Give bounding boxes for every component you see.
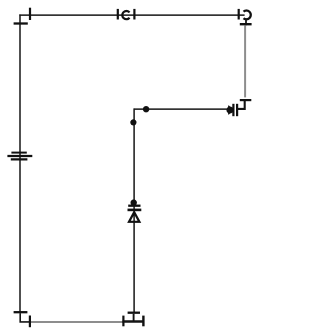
wire bottom junction horizontal [122,320,144,322]
D1 anode triangle (filled, pointing right) [229,106,234,114]
C2 straight plate [238,9,240,20]
wire terminal tick on bottom wire near bottom-left corner [29,316,31,328]
capacitor C1 (top middle, polarized: curved plate + straight plate) [118,9,135,20]
wire terminal tall bar right of bottom junction [142,316,144,327]
diode D1 (right, filled triangle + cathode bar) [226,104,237,116]
D1 cathode bar [232,104,234,116]
C1 curved plate arc (opening right) [122,11,129,19]
D2 cathode bar [128,209,142,212]
wire terminal tall bar left of bottom junction [122,316,124,327]
C2 bottom lead stub [245,19,247,26]
wire middle vertical [133,108,135,312]
capacitor C2 (top right corner, polarized: straight plate + curved plate) [239,9,251,26]
wire terminal bar above right corner [240,99,252,101]
junction dot C [131,199,137,205]
junction dot A [143,106,149,112]
wire bottom-left corner stub [20,313,31,322]
wire right mid corner [238,101,245,109]
wire terminal bar below top-left corner [14,22,28,24]
C1 straight plate [133,9,135,20]
wire top edge [19,14,244,16]
D1 terminal bar [236,104,238,116]
C2 curved plate arc (opening left) [244,11,251,20]
junction dot B [130,119,136,125]
wire terminal bar above bottom junction [128,312,140,314]
wire terminal tick on top wire near top-left corner [29,8,31,20]
wire bottom edge (gray) [31,321,123,323]
D2 terminal bar [128,205,140,207]
D2 anode triangle (outline, pointing up) [129,212,139,222]
battery B1 [7,153,32,160]
diode D2 (middle vertical, cathode bars + open triangle pointing up) [128,206,142,222]
wire bottom junction stub [133,314,135,322]
wire left edge [19,14,21,312]
wire middle horizontal [134,108,228,110]
wire right edge (gray) [244,25,246,97]
wire terminal bar above bottom-left corner [14,311,28,313]
wire terminal bar below capacitor C2 [240,23,252,25]
C1 left terminal bar [117,9,119,20]
